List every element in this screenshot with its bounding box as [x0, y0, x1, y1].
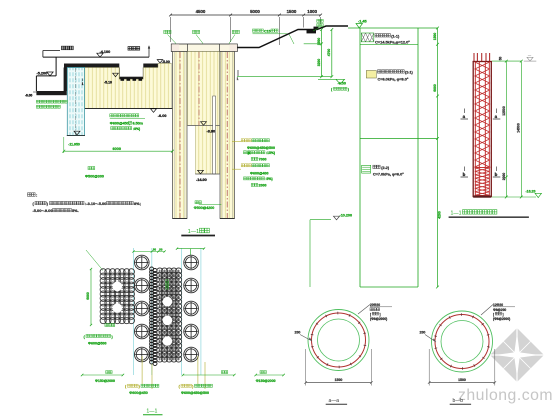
svg-text:50: 50 — [153, 247, 157, 251]
dense grout pile row (plan) — [150, 267, 157, 366]
svg-text:Φ600@450: Φ600@450 — [129, 391, 147, 395]
lattice mixing pile block (plan) — [100, 269, 134, 324]
soil mixing reinforcement zone (yellow hatch) — [85, 63, 172, 108]
plan title 1-1 — [143, 409, 163, 415]
bored pile left (section) — [173, 52, 188, 219]
projection lines (cyan) — [134, 248, 201, 375]
svg-text:-5.200: -5.200 — [37, 72, 48, 76]
svg-text:b—b: b—b — [453, 398, 464, 404]
wall below -5.200 berm — [35, 76, 37, 91]
active zone mixing pile grid (plan) — [157, 268, 182, 362]
elevation marker -8.90 — [201, 122, 216, 134]
svg-text:b: b — [463, 172, 466, 177]
notes shuoming text — [28, 193, 141, 213]
detail a-a circle — [308, 310, 369, 371]
svg-text:-8.90: -8.90 — [207, 130, 216, 134]
svg-text:C=14.5kPa,φ=12.0°: C=14.5kPa,φ=12.0° — [375, 40, 410, 45]
leader to lattice corner — [86, 250, 103, 271]
svg-text:1—1: 1—1 — [451, 211, 462, 217]
svg-text:5%.: 5%. — [72, 208, 79, 213]
elevation marker -5.200 — [37, 72, 54, 76]
pit bottom line -6.00 — [85, 107, 173, 109]
svg-text:8%;: 8%; — [134, 201, 141, 206]
svg-text:-16.20: -16.20 — [526, 189, 536, 193]
legend layer 2-1 mucky silty clay — [366, 70, 413, 82]
svg-text:]: ] — [380, 312, 381, 316]
svg-text:-10.200: -10.200 — [340, 214, 353, 218]
annotation both-sides mixing piles — [110, 114, 145, 131]
dimension line 4500/5000/1500/1000 — [169, 9, 322, 45]
label 100hou C15 dianceng — [253, 29, 295, 44]
plan top dimension right bracket — [176, 247, 205, 255]
svg-text:200: 200 — [295, 331, 301, 335]
svg-text:): ) — [112, 335, 113, 339]
dimension 1500/3200 vertical — [304, 28, 323, 78]
bored pile body with spiral reinforcement — [473, 62, 491, 198]
svg-text:b: b — [495, 172, 498, 177]
svg-text:(2-2): (2-2) — [381, 166, 390, 170]
cement mixing pile wall (cyan) — [67, 68, 84, 136]
svg-text:3200: 3200 — [317, 59, 321, 67]
plan top dimension 50x50 — [132, 247, 165, 252]
svg-text:]: ] — [503, 312, 504, 316]
title a-a — [326, 398, 347, 404]
svg-text:1500: 1500 — [287, 9, 297, 14]
svg-text:50: 50 — [159, 247, 163, 251]
green vertical label in grid — [166, 280, 169, 289]
svg-text:(Φ8@2000): (Φ8@2000) — [370, 317, 387, 321]
svg-text:4200: 4200 — [438, 211, 442, 219]
shotcrete band right segment — [143, 64, 158, 68]
svg-text:C15: C15 — [264, 30, 271, 34]
pit bottom level line right — [237, 76, 332, 78]
watermark text zhulong.com — [458, 387, 553, 404]
svg-text:1: 1 — [237, 77, 239, 81]
svg-text::8%): :8%) — [133, 127, 140, 131]
soil mass between piles — [188, 52, 220, 175]
section cut mark 1 right of pile — [237, 70, 239, 81]
svg-text:Φ600@450@500: Φ600@450@500 — [247, 146, 275, 150]
plan left dimension 6000 — [86, 268, 92, 326]
svg-text:zhulong.com: zhulong.com — [458, 387, 553, 404]
svg-text:6.50m: 6.50m — [133, 122, 144, 126]
label guan-liang above cap — [164, 30, 176, 43]
detail b-b bottom dim 1500 — [428, 349, 496, 386]
svg-text:12500: 12500 — [502, 106, 506, 116]
svg-text::15%): :15%) — [266, 151, 275, 155]
soil legend column frame — [360, 28, 438, 287]
svg-text:Φ500@300: Φ500@300 — [85, 175, 104, 179]
svg-text:2000: 2000 — [502, 173, 506, 181]
grey marker at pile top right — [524, 54, 537, 62]
detail a-a rebar labels — [358, 303, 392, 321]
svg-text::-3.10~-5.00: :-3.10~-5.00 — [85, 201, 106, 206]
svg-text:(Φ8@2000): (Φ8@2000) — [493, 317, 510, 321]
annotation slope mesh shotcrete — [36, 100, 67, 108]
svg-text:6000: 6000 — [433, 84, 437, 92]
wall bottom marker -11.950 — [67, 131, 85, 146]
svg-text:Φ600@500: Φ600@500 — [88, 341, 106, 345]
annotation pile tip middle — [194, 201, 222, 210]
active zone label A — [125, 384, 159, 395]
legend right dimension line — [433, 27, 442, 289]
svg-text::5%): :5%) — [266, 177, 273, 181]
svg-text:Φ600@400: Φ600@400 — [250, 172, 268, 176]
detail a-a bottom dim 1500 — [304, 349, 372, 386]
svg-text:1000: 1000 — [307, 9, 317, 14]
svg-text:-5.00~-9.00: -5.00~-9.00 — [33, 208, 53, 213]
svg-text::: : — [36, 193, 37, 198]
svg-text:1500: 1500 — [335, 378, 343, 382]
dimension 4700 vertical — [327, 28, 333, 78]
elevation marker -16.20 pile tip — [526, 189, 542, 197]
svg-text:C=7.0kPa, φ=6.0°: C=7.0kPa, φ=6.0° — [373, 172, 404, 176]
label li-zhu above cap — [193, 30, 204, 43]
berm slab hatched strip — [36, 91, 66, 95]
shotcrete band over wall top — [64, 64, 119, 68]
svg-text:14500: 14500 — [517, 123, 521, 133]
title 1-1 bored pile detail — [449, 210, 529, 218]
anchor labels on slope — [313, 19, 323, 31]
svg-text:-6.00: -6.00 — [25, 94, 32, 98]
legend layer 1-1 silty clay — [361, 33, 410, 45]
watermark logo — [490, 328, 544, 382]
svg-text:1500: 1500 — [458, 378, 466, 382]
elevation marker -10.200 — [310, 214, 352, 288]
natural ground line -1.45 — [348, 20, 438, 29]
legend layer 2-2 clay — [362, 165, 405, 176]
recess bottom band — [119, 77, 144, 80]
step down to -5.200 — [36, 57, 56, 76]
svg-text:1—1: 1—1 — [188, 229, 199, 235]
leader lines from labels (olive) — [142, 356, 205, 389]
svg-text:-1.45: -1.45 — [358, 20, 367, 24]
plan bottom axis line left — [81, 371, 124, 384]
svg-text:(1-1): (1-1) — [391, 34, 400, 38]
annotation pile tip left — [85, 167, 104, 179]
svg-text:200: 200 — [420, 331, 426, 335]
svg-text:a—a: a—a — [329, 398, 340, 404]
annotation mixing piles rows upper — [232, 139, 275, 162]
cap beam (crown beam) — [171, 44, 237, 52]
active zone label B — [179, 384, 213, 395]
svg-text:C=6.0kPa, φ=9.0°: C=6.0kPa, φ=9.0° — [378, 77, 409, 81]
svg-text:12Φ20: 12Φ20 — [493, 303, 503, 307]
elevation marker small far left — [25, 92, 36, 98]
bored pile right (section) — [220, 52, 235, 219]
passive zone label — [84, 324, 115, 346]
svg-text:-11.950: -11.950 — [68, 142, 80, 146]
annotation mixing piles rows lower — [232, 164, 273, 188]
pile rebar dowels above cut-off — [474, 53, 490, 62]
svg-text:1500: 1500 — [433, 33, 437, 41]
svg-text:-4.100: -4.100 — [100, 50, 111, 54]
elevation marker -14.00 — [195, 170, 219, 182]
svg-text:Φ150@2000: Φ150@2000 — [95, 379, 115, 383]
svg-text:4500: 4500 — [196, 9, 206, 14]
svg-text:Φ600@450,: Φ600@450, — [110, 122, 130, 126]
svg-text:-6.50: -6.50 — [338, 82, 346, 86]
elevation marker -4.100 — [97, 50, 110, 57]
pile detail dimension lines 12500/14500/2000 — [492, 57, 536, 199]
svg-text:1: 1 — [82, 82, 84, 86]
svg-text:-5.10: -5.10 — [104, 80, 112, 84]
svg-text:—: — — [528, 54, 531, 58]
ground line -4.100 level — [43, 51, 149, 58]
svg-text:): ) — [348, 88, 349, 92]
svg-text:6000: 6000 — [86, 292, 90, 300]
pile cut-off level line — [473, 61, 492, 63]
detail b-b rebar labels — [481, 303, 515, 321]
plan bottom axis far right — [254, 371, 284, 384]
bored pile row left (plan circles) — [135, 255, 150, 362]
elevation marker -5.10 at recess — [104, 73, 118, 84]
svg-text:6000: 6000 — [113, 147, 121, 151]
detail b-b cover dim 200 — [420, 331, 437, 342]
label mao-gan with leader arrow — [128, 46, 150, 57]
label wei-lin above cap — [229, 30, 239, 43]
svg-text:(2-1): (2-1) — [405, 71, 414, 75]
steel column in soil mass — [213, 96, 216, 174]
elevation marker -5.00 near cap — [157, 60, 171, 64]
svg-text:5000: 5000 — [250, 9, 260, 14]
svg-text:2000: 2000 — [259, 184, 267, 188]
svg-text:Φ600@450@500: Φ600@450@500 — [181, 391, 209, 395]
section mark 1 on wall — [82, 79, 84, 87]
shotcrete facing on wall left side — [64, 68, 68, 92]
detail b-b circle — [432, 311, 493, 372]
elevation marker -6.00 — [151, 109, 167, 118]
title 1-1 section — [181, 228, 215, 235]
dimension 6000 below wall — [62, 137, 173, 153]
svg-text:20Φ20: 20Φ20 — [370, 303, 380, 307]
plan bottom axis line right — [182, 371, 236, 377]
svg-text:7000: 7000 — [259, 158, 267, 162]
section mark b-b on pile — [461, 167, 501, 178]
detail a-a cover dim 200 — [295, 331, 313, 341]
svg-text:1—1: 1—1 — [146, 409, 157, 415]
title b-b — [450, 398, 471, 404]
svg-text:Φ500@4200: Φ500@4200 — [194, 206, 214, 210]
excavation slope profile (thick) — [237, 26, 348, 48]
label gang-jin-wang — [62, 46, 74, 50]
section mark a-a on pile — [461, 109, 501, 120]
svg-text:-14.00: -14.00 — [196, 178, 207, 182]
soil nail heads in recess — [121, 78, 143, 80]
svg-text:Φ8@200: Φ8@200 — [493, 308, 506, 312]
svg-text:1500: 1500 — [317, 38, 321, 46]
svg-text:4700: 4700 — [327, 49, 331, 57]
svg-text:Φ150@2000: Φ150@2000 — [256, 379, 276, 383]
svg-text:50: 50 — [499, 57, 503, 61]
bored pile row right (plan circles) — [184, 255, 199, 362]
svg-text:-6.00: -6.00 — [158, 114, 167, 118]
elevation marker -6.50 pit bottom — [318, 79, 349, 91]
recess step walls — [119, 68, 143, 77]
